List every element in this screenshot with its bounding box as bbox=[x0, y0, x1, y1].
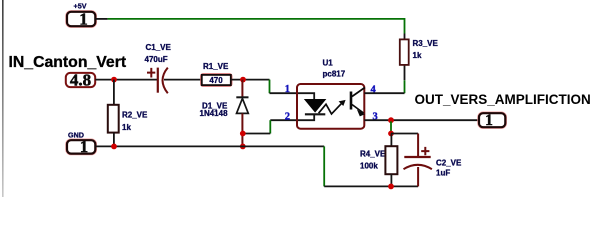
svg-text:pc817: pc817 bbox=[323, 69, 346, 78]
svg-text:R1_VE: R1_VE bbox=[203, 62, 229, 71]
wire ground rail bbox=[95, 145, 324, 147]
power terminal +5V bbox=[67, 2, 95, 29]
LED inside bbox=[298, 93, 314, 99]
node junction D1/gnd bbox=[240, 144, 246, 150]
node junction pin3 bbox=[388, 117, 394, 123]
svg-text:+5V: +5V bbox=[74, 2, 87, 11]
resistor R3 bbox=[400, 39, 439, 65]
wire +5V stub bbox=[95, 18, 107, 20]
output terminal bbox=[479, 112, 505, 129]
resistor R4 bbox=[360, 146, 397, 174]
node junction D1 top bbox=[240, 77, 246, 83]
wire R4 top lead bbox=[390, 134, 392, 147]
node junction at R2 branch bbox=[111, 77, 117, 83]
wire bottom rail bbox=[324, 185, 418, 187]
phototransistor bbox=[350, 92, 353, 110]
svg-text:R2_VE: R2_VE bbox=[122, 111, 148, 120]
optocoupler U1 bbox=[297, 59, 365, 129]
svg-text:1uF: 1uF bbox=[436, 169, 450, 178]
svg-text:U1: U1 bbox=[323, 59, 334, 68]
svg-text:470: 470 bbox=[209, 76, 223, 85]
svg-text:R3_VE: R3_VE bbox=[413, 39, 439, 48]
wire green to pin4 corner bbox=[404, 80, 406, 93]
svg-text:C1_VE: C1_VE bbox=[146, 43, 172, 52]
wire R1 to node bbox=[231, 79, 270, 81]
wire gnd drop (green) bbox=[323, 146, 325, 186]
svg-text:OUT_VERS_AMPLIFICTION: OUT_VERS_AMPLIFICTION bbox=[415, 92, 591, 107]
svg-text:470uF: 470uF bbox=[145, 55, 168, 64]
capacitor C1 bbox=[145, 43, 172, 94]
svg-text:C2_VE: C2_VE bbox=[436, 158, 462, 167]
wire input net y=79.6 bbox=[95, 79, 157, 81]
resistor R3 pin stubs bbox=[404, 34, 406, 81]
node junction R4 bottom bbox=[388, 184, 394, 190]
wire +5V net (green) bbox=[108, 19, 405, 34]
resistor R2 bbox=[108, 105, 148, 133]
svg-text:4.8: 4.8 bbox=[70, 71, 91, 90]
diode D1 bbox=[200, 80, 249, 147]
wire pin1 bbox=[270, 92, 298, 94]
resistor R1 bbox=[202, 62, 231, 85]
light zigzag arrow bbox=[319, 103, 342, 114]
node junction gnd/R2 bbox=[111, 144, 117, 150]
wire R4 bottom lead bbox=[390, 174, 392, 186]
wire C1 to R1 bbox=[164, 79, 202, 81]
wire R2 bottom lead bbox=[113, 133, 115, 147]
svg-text:R4_VE: R4_VE bbox=[360, 149, 386, 158]
capacitor C2 bbox=[404, 134, 463, 187]
svg-text:1N4148: 1N4148 bbox=[200, 109, 229, 118]
svg-text:1k: 1k bbox=[413, 51, 422, 60]
svg-text:1k: 1k bbox=[122, 123, 131, 132]
svg-text:2: 2 bbox=[285, 111, 290, 122]
wire green drop bbox=[390, 121, 392, 132]
wire branch to C2 bbox=[391, 133, 418, 135]
ground terminal GND bbox=[67, 130, 95, 156]
wire jog down from pin2 (green) bbox=[269, 120, 271, 133]
node junction R4/C2 bbox=[388, 131, 394, 137]
svg-text:1: 1 bbox=[485, 112, 493, 129]
svg-text:1: 1 bbox=[80, 137, 88, 156]
wire jog down to pin1 (green) bbox=[269, 80, 271, 94]
input terminal 4.8 bbox=[66, 71, 95, 90]
wire R2 top lead bbox=[113, 80, 115, 105]
svg-text:1: 1 bbox=[285, 84, 290, 95]
node junction D1/pin2 bbox=[240, 131, 246, 137]
wire to D1 bottom bbox=[243, 133, 270, 135]
svg-text:100k: 100k bbox=[360, 161, 378, 170]
svg-text:1: 1 bbox=[79, 10, 88, 29]
wire pin3 to out port bbox=[364, 119, 479, 121]
wire pin4 bbox=[364, 92, 404, 94]
svg-text:IN_Canton_Vert: IN_Canton_Vert bbox=[9, 54, 127, 71]
wire pin2 bbox=[270, 119, 297, 121]
